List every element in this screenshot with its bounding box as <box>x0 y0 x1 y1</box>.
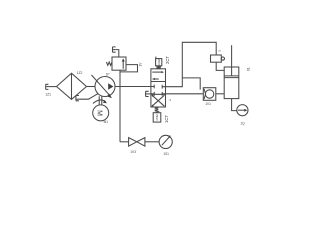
pump P1 (variable displacement) <box>92 75 116 98</box>
tank (relief outlet) <box>113 47 116 52</box>
solenoid top <box>156 57 162 66</box>
wire pump case drain <box>80 94 98 100</box>
wire relief to tank <box>116 50 119 57</box>
svg-text:01: 01 <box>246 67 250 71</box>
solenoid bottom <box>153 113 161 122</box>
svg-text:1S1: 1S1 <box>163 152 169 156</box>
wire A-line riser <box>166 42 225 86</box>
flow meter <box>237 105 248 116</box>
svg-text:4: 4 <box>169 98 171 102</box>
svg-text:1P: 1P <box>106 73 110 77</box>
svg-text:1Z1: 1Z1 <box>45 92 51 96</box>
tank (valve T port) <box>146 91 151 96</box>
shaft pump-motor <box>99 96 102 105</box>
wire filter to pump <box>87 86 96 88</box>
wire relief pilot loop <box>120 65 138 72</box>
tank (pump drain) <box>76 96 80 101</box>
rotation arrow <box>93 100 106 104</box>
svg-text:1Z2: 1Z2 <box>77 71 83 75</box>
motor M1 <box>93 105 109 121</box>
valve top position arrows <box>152 71 164 80</box>
spring top <box>156 66 161 69</box>
wire cylinder to flow meter <box>232 99 237 111</box>
wire gauge branch bottom <box>120 141 129 143</box>
shutoff valve V3 <box>129 138 145 147</box>
wire check valve to cylinder <box>216 93 224 95</box>
svg-text:M1: M1 <box>104 120 109 124</box>
wire pilot branch <box>182 78 200 90</box>
check valve (pilot operated) <box>203 88 216 101</box>
svg-text:CDM: CDM <box>155 114 159 121</box>
tank T1 (suction tank left) <box>46 84 57 89</box>
svg-text:1V1: 1V1 <box>205 102 211 106</box>
svg-text:1CT: 1CT <box>164 115 169 123</box>
filter Z1 <box>57 73 87 99</box>
valve centre position blocked ports <box>151 85 166 96</box>
spring bottom <box>155 107 159 112</box>
cylinder D1 <box>224 45 239 98</box>
wire main pressure line <box>115 86 151 88</box>
wire relief drain / gauge branch riser <box>119 70 121 142</box>
svg-text:S: S <box>217 50 221 52</box>
valve bottom position crossed arrows <box>152 95 165 107</box>
svg-text:CDM: CDM <box>157 58 161 65</box>
svg-text:1V3: 1V3 <box>130 150 136 154</box>
svg-text:1V: 1V <box>139 62 143 67</box>
sensor (limit switch on rod) <box>211 55 225 62</box>
relief valve V2 <box>106 57 126 70</box>
svg-text:2CT: 2CT <box>165 56 170 64</box>
directional valve 4/3 body <box>151 69 166 107</box>
svg-text:1Q: 1Q <box>240 121 245 125</box>
pressure gauge S1 <box>159 135 172 148</box>
wire shutoff to gauge <box>145 141 159 143</box>
svg-text:M: M <box>96 110 103 116</box>
wire B-line to check valve <box>166 93 204 95</box>
